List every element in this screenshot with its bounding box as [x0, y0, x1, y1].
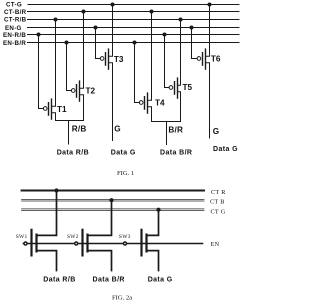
- svg-text:SW1: SW1: [16, 234, 28, 240]
- SW3 gate bar: [140, 230, 142, 256]
- SW2 gate terminal ring: [75, 242, 78, 245]
- junction dot T1 drain on CT-R/B: [54, 18, 58, 22]
- T2 gate bar: [76, 85, 78, 97]
- transistor T5: [165, 20, 193, 122]
- wire pair R/B sources join: [56, 120, 84, 122]
- T2 channel bar: [79, 81, 81, 101]
- wire T4 drain to CT-B/R: [148, 12, 152, 101]
- T1 gate bubble: [43, 107, 47, 111]
- junction dot SW2 drain on CT B: [109, 198, 113, 202]
- junction dot T2 drain on CT-B/R: [82, 10, 86, 14]
- transistor T6: [192, 5, 221, 139]
- svg-text:EN-G: EN-G: [5, 25, 22, 32]
- junction dot SW3 drain on CT G: [156, 208, 160, 212]
- transistor SW1: [16, 191, 57, 271]
- T1 channel bar: [51, 99, 53, 119]
- svg-text:FIG. 2a: FIG. 2a: [112, 295, 132, 302]
- transistor T3: [96, 5, 124, 141]
- T6 gate bar: [202, 53, 204, 65]
- wire bus CT-R/B: [28, 19, 240, 21]
- T5 gate bubble: [169, 86, 173, 90]
- wire T3 drain to CT-G: [109, 5, 113, 57]
- svg-text:T6: T6: [211, 55, 221, 64]
- junction dot T4 gate on EN-B/R: [133, 41, 137, 45]
- wire T3 source: [109, 63, 113, 141]
- wire bus EN-B/R: [28, 42, 240, 44]
- svg-text:G: G: [213, 127, 220, 136]
- T3 gate bar: [105, 53, 107, 65]
- svg-text:CT-R/B: CT-R/B: [4, 17, 27, 24]
- junction dot T4 drain on CT-B/R: [150, 10, 154, 14]
- svg-text:T3: T3: [114, 55, 124, 64]
- transistor SW2: [67, 200, 112, 270]
- T4 gate bubble: [139, 101, 143, 105]
- wire T3 gate from EN-G: [96, 28, 101, 59]
- wire SW1 source to Data R/B: [37, 251, 57, 271]
- svg-text:EN-B/R: EN-B/R: [3, 40, 26, 47]
- wire bus CT B (scanned double line): [22, 199, 205, 201]
- svg-text:T2: T2: [86, 87, 96, 96]
- wire T5 gate from EN-R/B: [165, 35, 170, 88]
- svg-text:Data R/B: Data R/B: [57, 150, 89, 157]
- svg-text:CT G: CT G: [211, 208, 226, 215]
- svg-text:Data B/R: Data B/R: [93, 276, 125, 283]
- SW2 gate bar: [81, 230, 83, 256]
- wire T2 drain to CT-B/R: [80, 12, 84, 89]
- wire SW3 drain to CT: [147, 210, 159, 236]
- SW2 channel bar: [86, 235, 88, 252]
- junction dot T2 gate on EN-B/R: [65, 41, 69, 45]
- SW1 channel bar: [35, 235, 37, 252]
- svg-text:SW3: SW3: [119, 234, 131, 240]
- svg-text:CT B: CT B: [210, 198, 225, 205]
- wire T6 source: [206, 63, 210, 138]
- svg-text:SW2: SW2: [67, 234, 79, 240]
- wire Data R/B drop: [68, 121, 70, 145]
- T1 gate bar: [48, 103, 50, 115]
- wire SW3 source to Data G: [147, 251, 159, 271]
- svg-text:EN: EN: [211, 241, 220, 248]
- T4 gate bar: [144, 97, 146, 109]
- svg-text:Data R/B: Data R/B: [43, 276, 75, 283]
- wire T4 gate from EN-B/R: [135, 43, 140, 103]
- wire T2 gate from EN-B/R: [67, 43, 72, 91]
- wire T6 drain to CT-G: [206, 5, 210, 57]
- svg-text:T4: T4: [155, 99, 165, 108]
- transistor SW3: [119, 210, 159, 271]
- svg-text:EN-R/B: EN-R/B: [3, 32, 26, 39]
- svg-text:T1: T1: [57, 105, 67, 114]
- SW1 gate terminal ring: [24, 242, 27, 245]
- transistor T4: [135, 12, 166, 122]
- T3 gate bubble: [100, 57, 104, 61]
- wire T2 source: [80, 95, 84, 121]
- junction dot SW1 drain on CT R: [54, 188, 58, 192]
- SW1 gate bar: [30, 230, 32, 256]
- wire T4 source: [148, 107, 152, 122]
- svg-text:Data G: Data G: [213, 146, 238, 153]
- wire pair B/R sources join: [152, 121, 181, 123]
- T2 gate bubble: [71, 89, 75, 93]
- wire T6 gate from EN-G: [192, 28, 198, 59]
- T5 gate bar: [174, 82, 176, 94]
- svg-text:B/R: B/R: [168, 125, 183, 134]
- junction dot T6 drain on CT-G: [208, 3, 212, 7]
- wire bus EN-G: [28, 27, 240, 29]
- junction dot T3 gate on EN-G: [94, 26, 98, 30]
- svg-text:Data G: Data G: [148, 276, 173, 283]
- svg-text:Data G: Data G: [111, 150, 136, 157]
- wire SW2 drain to CT: [88, 200, 112, 235]
- T3 channel bar: [108, 49, 110, 69]
- wire T5 source: [178, 92, 181, 122]
- transistor T1: [39, 20, 68, 121]
- svg-text:Data B/R: Data B/R: [160, 150, 192, 157]
- wire bus CT R: [22, 190, 205, 192]
- svg-text:CT-B/R: CT-B/R: [4, 9, 27, 16]
- wire SW1 drain to CT: [37, 191, 57, 236]
- wire bus CT G (scanned double line): [22, 209, 205, 211]
- T5 channel bar: [177, 78, 179, 98]
- wire bus CT-G: [28, 4, 239, 6]
- junction dot T3 drain on CT-G: [111, 3, 115, 7]
- SW3 gate terminal ring: [124, 242, 127, 245]
- SW3 channel bar: [145, 235, 147, 252]
- T6 gate bubble: [197, 57, 201, 61]
- junction dot T6 gate on EN-G: [190, 26, 194, 30]
- svg-text:CT-G: CT-G: [6, 2, 22, 9]
- transistor T2: [67, 12, 96, 121]
- svg-text:FIG. 1: FIG. 1: [117, 170, 134, 177]
- wire Data B/R drop: [166, 122, 168, 145]
- svg-text:G: G: [114, 125, 121, 134]
- T6 channel bar: [205, 49, 207, 69]
- wire bus EN: [24, 243, 203, 245]
- wire T5 drain to CT-R/B: [178, 20, 181, 86]
- svg-text:T5: T5: [183, 83, 193, 92]
- junction dot T5 gate on EN-R/B: [163, 33, 167, 37]
- junction dot T5 drain on CT-R/B: [179, 18, 183, 22]
- svg-text:CT R: CT R: [211, 189, 226, 196]
- wire SW2 source to Data B/R: [88, 251, 112, 271]
- wire bus EN-R/B: [28, 34, 240, 36]
- junction dot T1 gate on EN-R/B: [37, 33, 41, 37]
- wire T1 source: [52, 113, 56, 121]
- wire T1 gate from EN-R/B: [39, 35, 44, 109]
- wire bus CT-B/R: [28, 11, 240, 13]
- T4 channel bar: [147, 93, 149, 113]
- svg-text:R/B: R/B: [72, 125, 87, 134]
- wire T1 drain to CT-R/B: [52, 20, 56, 107]
